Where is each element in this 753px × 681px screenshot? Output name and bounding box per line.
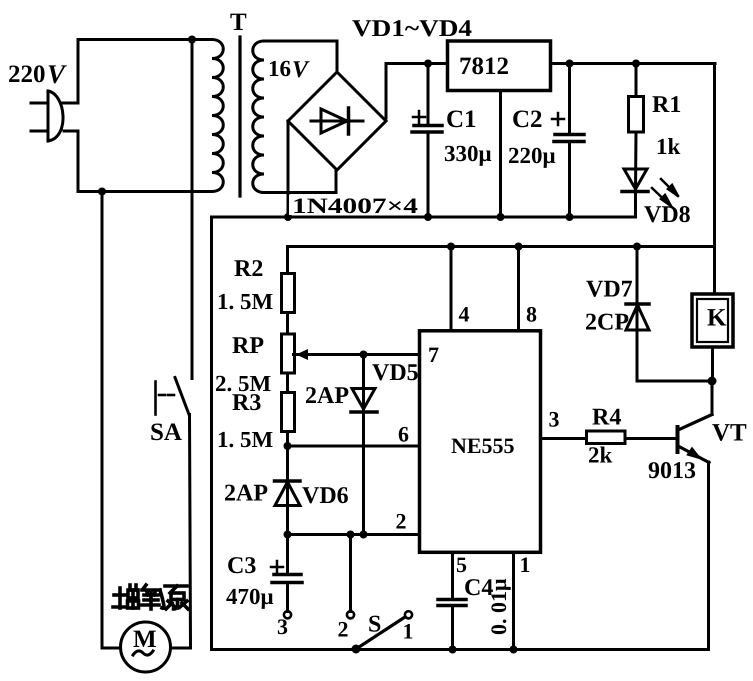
svg-text:3: 3 (277, 614, 288, 639)
wire: pin 5 (451, 553, 454, 600)
label VD7 (586, 277, 633, 303)
svg-text:K: K (707, 305, 727, 332)
svg-text:1k: 1k (656, 134, 681, 159)
diode VD5 2AP (351, 355, 377, 535)
svg-text:VD8: VD8 (644, 202, 691, 228)
svg-text:5: 5 (456, 552, 467, 577)
label C2 220u (508, 106, 556, 168)
svg-text:2k: 2k (588, 443, 613, 468)
LED VD8 emission arrows (652, 179, 678, 209)
resistor R4 2k (587, 431, 626, 444)
wire: bridge minus to ground rail (287, 121, 290, 217)
label 2AP (VD5) (305, 383, 349, 409)
junction: pin1 at ground (510, 646, 518, 654)
LED VD8 (622, 169, 648, 217)
plug XP 220V mains (31, 91, 78, 141)
wire: Vcc line to NE555 (288, 247, 715, 274)
capacitor C1 330u (412, 64, 442, 218)
diode VD6 2AP (275, 481, 301, 535)
IC NE555 (420, 331, 541, 553)
wire: SA branch down (191, 40, 194, 379)
junction: C2 top (566, 60, 574, 68)
wire: pin 3 to R4 (541, 437, 587, 440)
label 16V (268, 56, 310, 83)
svg-text:C1: C1 (446, 106, 477, 133)
junction: switch branch on pin2 line (347, 531, 355, 539)
svg-text:220: 220 (8, 61, 46, 88)
label 2CP (585, 310, 629, 336)
label R4 2k (588, 405, 621, 468)
transformer T secondary winding (253, 41, 264, 193)
junction: bridge minus at rail (284, 213, 292, 221)
svg-text:R1: R1 (652, 92, 681, 118)
label pin 8 (526, 302, 537, 327)
regulator U 7812 (448, 41, 551, 91)
label C3 470u (226, 553, 274, 609)
wire: 7812 ground pin (499, 91, 502, 218)
svg-text:2AP: 2AP (224, 481, 268, 507)
label T (230, 9, 247, 36)
svg-text:1. 5M: 1. 5M (217, 289, 274, 314)
capacitor C3 470u (271, 535, 302, 612)
label pin 3 (549, 407, 560, 432)
svg-text:2AP: 2AP (305, 383, 349, 409)
label C1 330u (444, 106, 492, 166)
wire: VD7 bottom to collector node (637, 380, 712, 383)
wire: relay bottom to collector node (711, 347, 714, 381)
wire: right rail from 7812 output down to relay (713, 64, 716, 295)
wire: R2 to RP (286, 313, 289, 335)
svg-text:V: V (292, 57, 310, 83)
wire: mains top (plug to primary) (78, 40, 212, 104)
wire: mains bottom (plug to primary bottom) (78, 131, 212, 192)
junction: R1 top (632, 60, 640, 68)
label 增氧泵 (oxygen pump) (113, 585, 188, 609)
label VT (712, 420, 747, 447)
wire: ground rail (power section) (212, 216, 636, 219)
junction: SA branch on top mains wire (188, 36, 196, 44)
junction: C4 at ground (449, 646, 457, 654)
svg-text:3: 3 (549, 407, 560, 432)
junction: 7812 gnd at rail (497, 213, 505, 221)
wire: bridge plus up and to 7812 input (386, 64, 447, 119)
junction: pin8 branch (515, 243, 523, 251)
switch SA (156, 378, 190, 415)
svg-text:VD5: VD5 (372, 360, 419, 386)
label VD6 (302, 483, 349, 509)
svg-text:470μ: 470μ (226, 584, 274, 609)
wire: secondary top to bridge AC top (264, 41, 337, 72)
label pin 7 (428, 342, 439, 367)
junction: C1 at rail (424, 213, 432, 221)
svg-text:2CP: 2CP (585, 310, 629, 336)
junction: C1 top (424, 60, 432, 68)
wire: secondary bottom to bridge AC bottom (264, 170, 336, 193)
wire: pin 2 line (288, 533, 420, 536)
wire: pin 4 (450, 247, 453, 331)
svg-text:SA: SA (150, 419, 182, 446)
potentiometer RP 2.5M (282, 334, 295, 373)
capacitor C4 0.01u (438, 600, 466, 650)
svg-text:1N4007×4: 1N4007×4 (292, 193, 418, 218)
label pin 2 (396, 509, 407, 534)
junction: switch pivot on ground (352, 645, 361, 654)
svg-text:4: 4 (459, 302, 470, 327)
svg-text:1: 1 (520, 552, 531, 577)
svg-text:8: 8 (526, 302, 537, 327)
junction: VD5 bottom on pin2 line (360, 531, 368, 539)
motor M (oxygen pump) (121, 622, 171, 672)
svg-text:1: 1 (403, 619, 414, 644)
svg-text:R2: R2 (234, 256, 263, 282)
svg-text:R3: R3 (232, 390, 261, 416)
RP wiper arrow (296, 349, 314, 360)
svg-text:S: S (368, 612, 381, 638)
label VD5 (372, 360, 419, 386)
wire: big box bottom edge (ground) (212, 648, 709, 651)
label VD1~VD4 (352, 16, 472, 42)
transistor VT 9013 (678, 381, 713, 650)
svg-text:RP: RP (232, 333, 264, 359)
svg-text:9013: 9013 (648, 458, 696, 484)
label 220V (8, 59, 67, 89)
switch S lever (356, 617, 405, 649)
wire: motor left branch (102, 192, 121, 649)
svg-text:V: V (47, 59, 67, 89)
wire: RP to R3 (286, 373, 289, 393)
label 1N4007x4 (289, 193, 420, 218)
switch S contact 1 (405, 611, 412, 618)
svg-text:16: 16 (268, 56, 291, 81)
wire: RP wiper line to pin 7 (294, 353, 420, 356)
svg-text:R4: R4 (592, 405, 621, 431)
svg-text:C2: C2 (512, 106, 543, 133)
wire: R4 to base (625, 437, 678, 440)
junction: collector node (708, 377, 717, 386)
label pin 6 (398, 422, 409, 447)
label R1 1k (652, 92, 681, 159)
switch S contact 3 (284, 611, 291, 618)
junction: pin4 branch (447, 243, 455, 251)
svg-text:VD7: VD7 (586, 277, 633, 303)
svg-text:1. 5M: 1. 5M (217, 427, 274, 452)
junction: motor branch on bottom mains wire (98, 188, 106, 196)
wire: SA bottom down to motor (171, 415, 191, 649)
svg-text:VD6: VD6 (302, 483, 349, 509)
junction: R3 bottom / pin6 line (284, 442, 292, 450)
wire: big box left edge (210, 217, 213, 650)
svg-text:7812: 7812 (459, 53, 509, 80)
svg-text:T: T (230, 9, 247, 36)
bridge rectifier VD1-VD4 diamond (288, 72, 386, 170)
switch S contact 2 (347, 611, 354, 618)
label 2AP (VD6) (224, 481, 268, 507)
label 9013 (648, 458, 696, 484)
resistor R2 1.5M (282, 274, 295, 313)
transformer T primary winding (212, 40, 223, 192)
label S (368, 612, 381, 638)
svg-text:7: 7 (428, 342, 439, 367)
label 0.01u (rotated) (486, 578, 511, 635)
svg-text:C3: C3 (227, 553, 256, 579)
svg-text:6: 6 (398, 422, 409, 447)
svg-text:NE555: NE555 (451, 433, 515, 458)
transformer T core (238, 37, 241, 196)
label C4 (464, 575, 493, 601)
svg-text:M: M (133, 626, 157, 653)
wire: pin 8 (517, 247, 520, 331)
junction: VD6/C3 node (284, 531, 292, 539)
label VD8 (644, 202, 691, 228)
wire: 7812 output to right rail (551, 62, 716, 65)
bridge inner diode symbol (311, 108, 363, 134)
label R2 1.5M (217, 256, 274, 314)
label SA (150, 419, 182, 446)
wire: contact 2 up to pin2 line (349, 535, 352, 612)
label pin 1 (520, 552, 531, 577)
capacitor C2 220u (552, 64, 584, 218)
relay K coil (692, 294, 733, 347)
label pin 5 (456, 552, 467, 577)
junction: VD5 top (360, 351, 368, 359)
resistor R1 1k (629, 64, 644, 192)
label R3 1.5M (217, 390, 274, 452)
svg-text:330μ: 330μ (444, 141, 492, 166)
resistor R3 1.5M (282, 393, 295, 432)
svg-text:2: 2 (396, 509, 407, 534)
svg-text:VT: VT (712, 420, 747, 447)
junction: C2 at rail (566, 213, 574, 221)
wire: pin 1 to ground (512, 553, 515, 650)
svg-text:0. 01μ: 0. 01μ (486, 578, 511, 635)
wire: pin 6 line (288, 445, 420, 448)
wire: R3 bottom to pin6 node (286, 432, 289, 506)
svg-text:2: 2 (338, 617, 349, 642)
junction: VD7 branch (633, 243, 641, 251)
diode VD7 2CP (626, 247, 649, 382)
label RP 2.5M (215, 333, 272, 396)
svg-text:220μ: 220μ (508, 143, 556, 168)
label pin 4 (459, 302, 470, 327)
svg-text:VD1~VD4: VD1~VD4 (352, 16, 472, 42)
